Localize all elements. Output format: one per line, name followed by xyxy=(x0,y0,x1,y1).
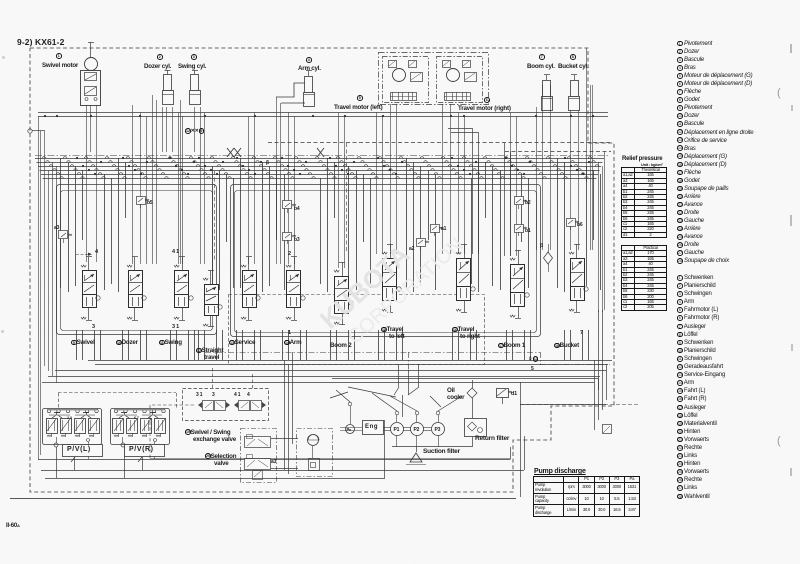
wire port x=176 xyxy=(176,330,178,360)
label travel motor left xyxy=(357,95,363,101)
label boom cyl xyxy=(539,54,545,60)
P/V(R) box xyxy=(125,445,165,457)
title xyxy=(17,37,64,47)
valve spool at x=211 xyxy=(210,270,212,284)
label bucket cyl xyxy=(570,54,576,60)
wire port x=336 xyxy=(336,330,338,360)
wire port x=300 xyxy=(300,330,302,360)
pilot dashed drop x215 xyxy=(214,171,216,262)
relief d1 xyxy=(497,389,509,398)
X mark xyxy=(227,148,234,157)
relief valve b4 xyxy=(283,201,292,209)
scan marks xyxy=(790,44,792,53)
return filter xyxy=(465,419,487,437)
wire drop x=53 xyxy=(52,162,54,376)
wire port x=255 xyxy=(254,330,256,360)
wire drop x=49 xyxy=(48,170,50,371)
pump discharge table xyxy=(534,468,586,475)
wire drop x=181 xyxy=(180,100,182,264)
wire port x=223 xyxy=(222,330,224,360)
wire drop x=598 xyxy=(598,162,600,312)
straight travel dash-dot line xyxy=(205,352,540,354)
wire port x=147 xyxy=(146,330,148,360)
wire port x=378 xyxy=(378,330,380,360)
wire comb x=587 xyxy=(586,166,588,286)
wire drop x=167 xyxy=(166,107,168,152)
label oil cooler xyxy=(447,387,455,394)
wire port x=571 xyxy=(570,330,572,360)
pilot dash-dot line xyxy=(35,155,610,157)
wire port x=194 xyxy=(194,330,196,360)
wire port x=524 xyxy=(524,330,526,360)
label P/V xyxy=(67,446,91,453)
legend german xyxy=(677,275,725,502)
wire comb x=111 xyxy=(111,178,113,284)
wire port x=188 xyxy=(188,330,190,360)
relief valve a1 xyxy=(431,225,440,233)
wire drop x=383 xyxy=(382,116,384,254)
pilot dashed drop x347 xyxy=(346,143,348,252)
bus wire y=162 xyxy=(37,162,603,164)
wire drop x=396 xyxy=(396,104,398,254)
wire port x=261 xyxy=(260,330,262,360)
wire comb x=500 xyxy=(500,170,502,290)
wire drop x=345 xyxy=(344,116,346,268)
engine and pumps xyxy=(346,425,355,434)
practical table xyxy=(621,245,667,311)
label dozer swing cyl xyxy=(157,54,163,60)
straight travel dashed box xyxy=(229,295,485,365)
wire port x=282 xyxy=(282,330,284,360)
selection valve dash-dot box xyxy=(241,429,277,483)
wire drop x=133 xyxy=(132,105,134,264)
wire drop x=605 xyxy=(604,152,606,311)
lower bus lines xyxy=(88,360,612,362)
pilot valve cluster left xyxy=(43,409,102,445)
wire comb x=471 xyxy=(471,178,473,284)
wire drop x=255 xyxy=(254,113,256,265)
label straight travel xyxy=(196,347,223,354)
pilot arrow to swivel spool xyxy=(76,254,88,256)
wire comb x=227 xyxy=(226,174,228,242)
legend french xyxy=(677,40,753,265)
cylinder xyxy=(194,70,196,75)
bottom rule line xyxy=(10,498,516,500)
valve block outline right xyxy=(231,185,541,337)
wire comb x=356 xyxy=(356,170,358,290)
relief valve b1 xyxy=(515,225,524,233)
wire drop x=140 xyxy=(140,113,142,265)
wire port x=402 xyxy=(402,330,404,360)
wire drop x=205 xyxy=(204,113,206,265)
valve spool at x=464 xyxy=(464,244,466,258)
valve block outline left xyxy=(57,185,217,335)
wire comb x=241 xyxy=(240,158,242,288)
label suction filter xyxy=(423,448,460,455)
wire comb x=234 xyxy=(233,178,235,288)
wire comb x=594 xyxy=(593,170,595,240)
relief valve b3 xyxy=(283,233,292,241)
wire drop x=157 xyxy=(156,100,158,264)
label selection valve xyxy=(205,453,236,460)
label arm cyl xyxy=(306,57,312,63)
wire port x=476 xyxy=(476,330,478,360)
upper right dashed pilot lines xyxy=(268,142,611,144)
valve spool at x=390 xyxy=(390,244,392,258)
label swivel motor xyxy=(56,53,62,59)
X mark 2 xyxy=(317,148,324,157)
wire comb x=407 xyxy=(406,158,408,288)
wire port x=243 xyxy=(242,330,244,360)
valve spool at x=294 xyxy=(294,257,296,271)
wire comb x=284 xyxy=(284,174,286,290)
wire drop x=41 xyxy=(40,131,42,455)
wire port x=348 xyxy=(348,330,350,360)
label travel motor right xyxy=(484,97,490,103)
wire drop x=602 xyxy=(602,166,604,312)
wire comb x=493 xyxy=(492,166,494,286)
wire comb x=349 xyxy=(348,166,350,286)
wire drop x=194 xyxy=(194,107,196,152)
wire comb x=263 xyxy=(262,162,264,292)
pump suction drops xyxy=(396,436,398,448)
service port circle xyxy=(28,129,32,133)
wire port x=583 xyxy=(582,330,584,360)
wire comb x=421 xyxy=(420,166,422,286)
wire drop x=458 xyxy=(458,113,460,255)
wire port x=512 xyxy=(512,330,514,360)
wire port x=470 xyxy=(470,330,472,360)
valve spool at x=89 xyxy=(88,257,90,271)
wire comb x=119 xyxy=(118,158,120,292)
wire drop x=295 xyxy=(294,116,296,264)
wire drop x=516 xyxy=(516,116,518,256)
relief pressure table xyxy=(622,156,662,162)
small junction box bottom right xyxy=(603,425,612,434)
wire drop x=510 xyxy=(510,113,512,257)
wire comb x=335 xyxy=(334,162,336,218)
travel motor xyxy=(383,57,429,103)
wire port x=101 xyxy=(100,330,102,360)
wire comb x=522 xyxy=(521,174,523,242)
wire drop x=276 xyxy=(276,97,278,264)
valve spool at x=249 xyxy=(248,257,250,271)
bus wire y=158 xyxy=(35,158,604,160)
bus wire y=174 xyxy=(41,174,598,176)
wire port x=141 xyxy=(140,330,142,360)
relief valve b6 xyxy=(567,219,576,227)
cylinder xyxy=(167,70,169,75)
wire port x=95 xyxy=(94,330,96,360)
wire drop x=152 xyxy=(152,95,154,264)
wire drop x=586 xyxy=(586,48,588,182)
left wrap wires xyxy=(38,459,510,461)
exchange valve dashed risers xyxy=(212,368,214,390)
valve spool at x=342 xyxy=(342,262,344,276)
cylinder xyxy=(546,75,548,80)
wire drop x=146 xyxy=(146,116,148,264)
wire comb x=104 xyxy=(104,174,106,290)
machine outline dashed border xyxy=(30,48,614,492)
wire drop x=200 xyxy=(200,107,202,264)
wire drop x=183 xyxy=(182,116,184,264)
valve spool at x=577 xyxy=(576,244,578,258)
wire port x=384 xyxy=(384,330,386,360)
wire port x=452 xyxy=(452,330,454,360)
travel motor dash-dot enclosure xyxy=(379,53,489,105)
check valve symbol xyxy=(544,252,553,264)
wire comb x=219 xyxy=(219,170,221,290)
wire comb x=327 xyxy=(327,158,329,292)
suction filter strainer xyxy=(410,453,422,462)
wire drop x=443 xyxy=(442,104,444,254)
wire port x=170 xyxy=(170,330,172,360)
wire drop x=543 xyxy=(542,85,544,250)
wire comb x=61 xyxy=(60,158,62,288)
junction dots xyxy=(76,157,78,159)
wire comb x=83 xyxy=(82,170,84,240)
wire port x=199 xyxy=(198,330,200,360)
valve labels xyxy=(71,339,95,346)
wire drop x=536 xyxy=(536,107,538,250)
wire drop x=289 xyxy=(288,113,290,265)
relief valve b2 xyxy=(515,197,524,205)
wire port x=217 xyxy=(216,330,218,360)
arm cyl step wires xyxy=(276,83,305,97)
wire port x=458 xyxy=(458,330,460,360)
wire drop x=178 xyxy=(178,113,180,265)
pilot valve cluster right xyxy=(111,409,170,445)
wire comb x=529 xyxy=(528,178,530,288)
label exchange valve xyxy=(185,429,230,436)
wire port x=506 xyxy=(506,330,508,360)
wire comb x=486 xyxy=(485,162,487,218)
upper bus wire y=116 xyxy=(38,116,608,118)
d1 down wire xyxy=(502,397,504,404)
wire comb x=126 xyxy=(125,162,127,218)
wire drop x=390 xyxy=(390,104,392,254)
wire drop x=451 xyxy=(450,104,452,254)
wire comb x=212 xyxy=(212,166,214,286)
wire drop x=579 xyxy=(578,110,580,250)
wire port x=288 xyxy=(288,330,290,360)
bus wire y=166 xyxy=(38,166,601,168)
wire port x=530 xyxy=(530,330,532,360)
accumulator xyxy=(297,429,333,477)
mid feed verticals xyxy=(284,360,286,470)
selection valve small relief xyxy=(253,471,263,480)
oil cooler diamond xyxy=(467,388,477,398)
pilot cluster dashed enclosure xyxy=(58,392,176,394)
exchange valve 1 xyxy=(203,401,214,411)
wire drop x=377 xyxy=(376,113,378,255)
wire drop x=590 xyxy=(590,85,592,250)
wire drop x=96 xyxy=(96,105,98,262)
suction line xyxy=(392,446,442,448)
wire drop x=173 xyxy=(172,107,174,152)
wire drop x=162 xyxy=(162,107,164,152)
wire port x=589 xyxy=(588,330,590,360)
cylinder xyxy=(574,75,576,80)
relief valve b5 xyxy=(137,197,146,205)
upper bus wire y=112.5 xyxy=(38,112,608,114)
pv cluster down wires xyxy=(56,447,58,478)
wire comb x=565 xyxy=(564,162,566,292)
wire port x=237 xyxy=(236,330,238,360)
P/V(L) box xyxy=(63,445,103,457)
wire port x=83 xyxy=(82,330,84,360)
wire drop x=57 xyxy=(56,166,58,383)
wire drop x=91 xyxy=(90,105,92,152)
swivel motor M1 xyxy=(90,42,92,58)
cylinder xyxy=(308,71,310,76)
valve spool at x=518 xyxy=(518,250,520,264)
exchange valve 2 xyxy=(239,401,250,411)
exchange valve dashed box xyxy=(183,389,269,421)
pump junction wires xyxy=(332,378,598,380)
wire port x=77 xyxy=(76,330,78,360)
wire comb x=428 xyxy=(428,170,430,240)
wire comb x=277 xyxy=(276,170,278,240)
travel motor xyxy=(437,57,483,103)
pump top ports xyxy=(395,411,399,415)
wire port x=354 xyxy=(354,330,356,360)
wire port x=565 xyxy=(564,330,566,360)
small digit labels xyxy=(95,249,98,255)
wire port x=396 xyxy=(396,330,398,360)
valve spool at x=135 xyxy=(134,257,136,271)
wire port x=123 xyxy=(122,330,124,360)
bus crossover bumps xyxy=(42,157,46,159)
wire comb x=435 xyxy=(435,174,437,290)
wire comb x=414 xyxy=(413,162,415,292)
wire port x=205 xyxy=(204,330,206,360)
wire port x=330 xyxy=(330,330,332,360)
wire drop x=593 xyxy=(592,85,594,250)
label Eng xyxy=(365,424,378,430)
wire comb x=371 xyxy=(370,178,372,288)
wire drop x=45 xyxy=(44,131,46,366)
wire drop x=571 xyxy=(570,110,572,250)
wire port x=129 xyxy=(128,330,130,360)
wire comb x=558 xyxy=(557,158,559,288)
suction dashed box xyxy=(150,405,195,458)
wire drop x=249 xyxy=(248,116,250,264)
pump feed diagonals xyxy=(372,393,397,411)
wire drop x=38 xyxy=(38,116,40,460)
wire comb x=601 xyxy=(600,174,602,290)
wire port x=306 xyxy=(306,330,308,360)
bus wire y=178 xyxy=(43,178,597,180)
relief valve a3 xyxy=(59,231,68,239)
right side verticals xyxy=(594,360,596,430)
wire comb x=75 xyxy=(75,166,77,286)
return line down xyxy=(520,404,522,497)
bus wire y=170 xyxy=(40,170,600,172)
valve spool at x=182 xyxy=(182,257,184,271)
wire drop x=338 xyxy=(338,113,340,269)
wire comb x=320 xyxy=(320,178,322,284)
wire comb x=479 xyxy=(478,158,480,292)
wire comb x=363 xyxy=(363,174,365,242)
wire comb x=270 xyxy=(269,166,271,286)
relief valve a2 xyxy=(417,239,426,247)
page number xyxy=(6,523,20,529)
selection valve xyxy=(245,437,271,448)
wire drop x=551 xyxy=(550,85,552,250)
wire comb x=68 xyxy=(68,162,70,292)
label return filter xyxy=(475,435,509,442)
wire drop x=86 xyxy=(86,105,88,262)
wire drop x=464 xyxy=(464,116,466,254)
travel-right feed jog xyxy=(448,128,472,130)
wire drop x=281 xyxy=(280,103,282,264)
